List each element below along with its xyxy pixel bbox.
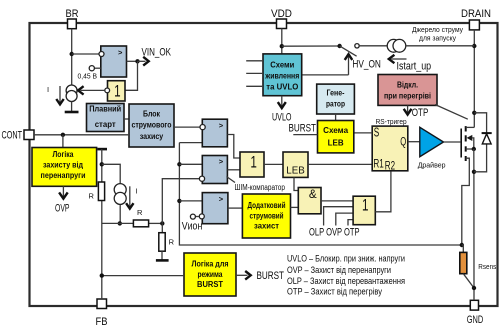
svg-text:Vион: Vион: [182, 220, 203, 232]
wire CONT node down to OVP logic: [62, 135, 64, 148]
svg-text:S: S: [374, 125, 380, 139]
svg-text:OTP – Захист від перегріву: OTP – Захист від перегріву: [287, 287, 382, 297]
node switch: [337, 44, 341, 48]
block BURST logic: [184, 253, 236, 296]
svg-text:Q: Q: [400, 137, 406, 149]
resistor R1 (upper FB divider): [89, 182, 105, 201]
svg-text:UVLO: UVLO: [272, 111, 292, 123]
op-amp U4 (aux current comparator): [190, 193, 228, 224]
node divider to current source: [100, 162, 104, 166]
block OVP logic: [32, 148, 97, 187]
wire U1 output: [127, 60, 138, 62]
ground (R3): [156, 259, 169, 262]
svg-text:захису: захису: [140, 132, 164, 141]
node sense comp2: [177, 162, 181, 166]
svg-text:перенапруги: перенапруги: [41, 171, 86, 180]
wire OLP input: [324, 207, 354, 226]
svg-text:VIN_OK: VIN_OK: [142, 46, 172, 58]
wire OTP input: [348, 220, 353, 226]
svg-text:1: 1: [250, 152, 257, 171]
wire Rsens to GND: [463, 274, 474, 288]
logic gate B1 (1): [105, 81, 125, 101]
wire switch to startup source: [359, 45, 387, 47]
pin VDD: [271, 8, 292, 29]
switch HV_ON blade: [340, 46, 357, 56]
wire comp2 output to B2: [227, 169, 240, 171]
wire I2 down to rail: [119, 205, 121, 224]
svg-text:GND: GND: [467, 314, 484, 326]
svg-text:I: I: [136, 186, 138, 195]
label PWM comparator: [227, 177, 286, 193]
node diode bottom: [472, 170, 476, 174]
svg-text:VDD: VDD: [271, 8, 292, 20]
node BR divider: [70, 52, 74, 56]
wire DRAIN down: [473, 30, 475, 128]
svg-text:Відкл.: Відкл.: [397, 81, 418, 90]
wire FB divider vertical: [101, 149, 103, 182]
wire divider rail: [102, 222, 134, 224]
node VDD: [280, 44, 284, 48]
current source I2: [114, 184, 126, 205]
op-amp U2 (current limit comparator): [200, 119, 227, 147]
svg-text:1: 1: [114, 82, 121, 101]
block aux current protection: [242, 194, 290, 238]
pin CONT: [2, 130, 35, 142]
svg-text:Джерело струму: Джерело струму: [412, 27, 463, 34]
wire soft start to current protection: [124, 118, 129, 120]
svg-text:UVLO – Блокир. при зниж. напру: UVLO – Блокир. при зниж. напруги: [287, 254, 405, 264]
node sense rsens: [460, 243, 464, 247]
svg-text:>: >: [219, 157, 224, 166]
svg-text:захист: захист: [254, 222, 279, 231]
current source I1 (BR): [66, 85, 77, 102]
block current protection: [129, 104, 174, 147]
wire B5 output to R2 of RS trigger: [375, 171, 391, 212]
RS trigger U5: [372, 125, 408, 172]
svg-text:Драйвер: Драйвер: [418, 161, 446, 170]
wire LEB scheme to S input: [354, 132, 372, 134]
wire I1 to ground: [71, 102, 73, 112]
svg-text:&: &: [309, 189, 317, 201]
svg-text:OTP: OTP: [412, 107, 429, 119]
svg-text:>: >: [219, 121, 224, 130]
svg-text:FB: FB: [96, 316, 108, 327]
svg-text:Схеми: Схеми: [270, 61, 294, 70]
svg-text:R2: R2: [385, 159, 396, 173]
wire comp1 output to B2: [227, 135, 240, 159]
wire LEB output to R1 of RS trigger: [308, 163, 372, 165]
resistor R2 (horizontal): [133, 208, 148, 227]
wire comp3 output to aux protection: [228, 207, 243, 209]
svg-text:Логіка для: Логіка для: [192, 259, 229, 268]
wire to Rsens: [462, 245, 464, 252]
svg-text:ШІМ-компаратор: ШІМ-компаратор: [235, 183, 286, 192]
wire BR node to comparator U1: [72, 53, 100, 55]
pin GND: [467, 300, 484, 326]
transistor Q1 (power MOSFET): [461, 126, 474, 245]
svg-text:R: R: [169, 237, 175, 246]
svg-text:I: I: [47, 85, 49, 94]
wire startup to drain: [406, 45, 475, 47]
diode D1: [474, 113, 492, 172]
wire R3 to ground: [161, 251, 163, 259]
wire LEB to AND gate: [294, 177, 298, 190]
svg-text:DRAIN: DRAIN: [461, 8, 491, 20]
svg-text:LEB: LEB: [286, 164, 305, 176]
wire VDD rail to switch: [282, 45, 340, 47]
signal arrow BURST: [236, 270, 284, 282]
input stubs UVLO box: [246, 61, 263, 87]
logic gate B5 (1): [353, 195, 375, 224]
svg-text:CONT: CONT: [2, 130, 23, 142]
node source body: [472, 147, 476, 151]
svg-text:LEB: LEB: [328, 138, 344, 147]
svg-text:OLP – Захист від перевантаженн: OLP – Захист від перевантаження: [287, 276, 405, 286]
svg-text:Istart_up: Istart_up: [397, 60, 432, 72]
node FB: [100, 273, 104, 277]
block OTP shutdown: [378, 75, 437, 106]
svg-text:R: R: [89, 191, 95, 200]
logic gate B4 (AND): [298, 188, 321, 214]
node I2 rail: [118, 221, 122, 225]
svg-text:HV_ON: HV_ON: [352, 59, 381, 71]
block LEB scheme: [318, 121, 354, 153]
wire node down to R3: [161, 223, 163, 232]
leader OTP to transistor: [435, 105, 468, 120]
label startup source: [412, 27, 463, 43]
wire node to current source I2: [102, 164, 120, 183]
pin BR: [66, 8, 79, 29]
svg-text:OVP: OVP: [55, 202, 70, 214]
svg-text:для запуску: для запуску: [419, 36, 456, 43]
wire driver to gate: [444, 141, 461, 143]
block generator: [317, 84, 355, 114]
svg-text:1: 1: [362, 195, 369, 214]
svg-text:старт: старт: [95, 120, 116, 129]
svg-text:OVP – Захист від перенапруги: OVP – Захист від перенапруги: [287, 265, 391, 275]
svg-text:RS-тригер: RS-тригер: [376, 117, 407, 126]
switch contact: [355, 44, 359, 48]
wire sense to comp1 lower input: [179, 142, 202, 144]
wire source down: [473, 149, 475, 300]
svg-text:ратор: ратор: [326, 100, 345, 109]
svg-text:Схема: Схема: [323, 126, 349, 135]
node drain startup: [472, 44, 476, 48]
block LEB: [283, 152, 308, 177]
svg-text:Гене-: Гене-: [327, 89, 345, 98]
node GND: [472, 286, 476, 290]
logic gate B2 (1): [240, 152, 264, 177]
signal arrow OVP: [55, 186, 70, 214]
wire BR down: [71, 29, 73, 85]
current source I3 (startup): [387, 39, 406, 52]
wire B2 to LEB: [264, 163, 283, 165]
wire BURST to LEB scheme: [293, 134, 317, 136]
op-amp U1 (VIN_OK comparator): [89, 46, 126, 77]
node R2-R3: [160, 221, 164, 225]
sense line vertical: [179, 143, 461, 245]
svg-text:>: >: [219, 194, 224, 203]
svg-text:режима: режима: [198, 270, 223, 279]
node CONT: [61, 133, 65, 137]
resistor R3 (lower): [159, 233, 175, 252]
wire generator to LEB scheme: [335, 114, 337, 121]
node A top bar: [97, 148, 107, 151]
block power supply UVLO: [263, 54, 302, 96]
node drain diode: [472, 111, 476, 115]
current direction arrow I1: [47, 85, 64, 104]
svg-text:BURST: BURST: [197, 280, 223, 289]
wire sense to comp2 upper input: [179, 163, 203, 165]
svg-text:Блок: Блок: [143, 110, 161, 119]
svg-text:OLP OVP OTP: OLP OVP OTP: [309, 226, 360, 238]
pin DRAIN: [461, 8, 491, 30]
wire FB node to BURST logic: [102, 275, 184, 277]
svg-text:при перегріві: при перегріві: [384, 92, 431, 101]
signal arrow OTP: [404, 105, 429, 119]
op-amp U3 (PWM comparator): [199, 156, 227, 184]
svg-text:живлення: живлення: [264, 72, 299, 81]
svg-text:Rsens: Rsens: [478, 262, 496, 271]
wire node up to PWM comparator input: [162, 179, 199, 224]
signal arrow VIN_OK: [138, 46, 172, 65]
wire VIN_OK feedback to gate B1: [126, 61, 138, 90]
wire VDD down: [281, 29, 283, 54]
svg-text:R: R: [137, 208, 143, 217]
signal arrow UVLO: [272, 96, 292, 124]
svg-text:Плавний: Плавний: [89, 105, 121, 114]
signal arrow Istart_up: [389, 55, 431, 73]
svg-text:>: >: [118, 48, 123, 57]
current direction arrow I2: [126, 186, 137, 208]
driver U6: [418, 127, 446, 169]
wire aux protection to AND: [291, 206, 299, 208]
svg-text:захисту від: захисту від: [43, 160, 83, 169]
svg-text:BR: BR: [66, 8, 79, 20]
wire UVLO box to HV_ON: [302, 74, 349, 76]
svg-text:BURST: BURST: [257, 270, 285, 282]
wire CONT: [34, 134, 129, 136]
block soft start: [87, 104, 125, 132]
arrow B1 to current source: [78, 86, 105, 94]
wire Q output to driver: [408, 141, 420, 143]
svg-text:Логіка: Логіка: [53, 150, 74, 159]
pin FB: [96, 299, 108, 327]
ground (BR current source): [65, 111, 79, 114]
node sense comp3: [177, 199, 181, 203]
node VIN_OK: [135, 59, 139, 63]
svg-text:та UVLO: та UVLO: [266, 83, 298, 92]
svg-text:струмовий: струмовий: [250, 211, 284, 220]
resistor Rsens: [460, 252, 497, 273]
wire AND to B5: [321, 200, 353, 202]
wire sense to comp3 upper input: [179, 200, 203, 202]
svg-text:R1: R1: [373, 156, 384, 170]
wire OVP input: [336, 213, 353, 225]
svg-text:струмового: струмового: [132, 121, 172, 130]
wire current protection block to comp1: [174, 126, 200, 128]
svg-text:BURST: BURST: [289, 123, 317, 135]
HV_ON control arrow: [345, 54, 381, 75]
svg-text:Додатковий: Додатковий: [248, 201, 286, 210]
svg-text:0,45 В: 0,45 В: [78, 72, 98, 81]
